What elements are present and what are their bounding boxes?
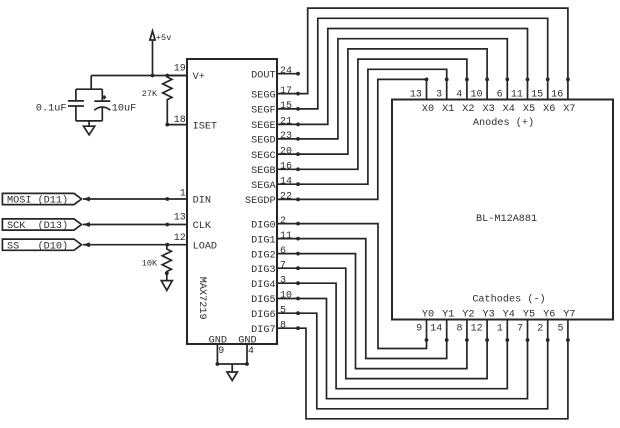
pin 14 Y1 (cathode bottom) [430,310,454,342]
wire DIG7 to Y7 [298,328,568,419]
svg-text:GND: GND [209,335,227,346]
svg-text:16: 16 [280,162,292,173]
ground below R2 [161,273,172,290]
resistor R2 10K [142,245,172,275]
svg-text:SCK (D13): SCK (D13) [7,220,68,232]
wire SEGF to X6 [298,18,548,109]
wire SEGDP to X0 [298,79,427,199]
pin 3 DIG4 (right) [251,275,300,291]
wire SEGA to X1 [298,69,447,184]
svg-text:14: 14 [280,176,292,187]
svg-text:SS (D10): SS (D10) [7,240,68,252]
wire SS to IC [83,242,187,247]
wire DIG5 to Y5 [298,299,528,399]
node SCK input flag [2,219,81,232]
wire DIG1 to Y1 [298,239,447,359]
wire SEGE to X5 [298,29,528,125]
svg-text:DIG6: DIG6 [251,310,275,321]
svg-text:CLK: CLK [193,221,212,232]
svg-text:SEGF: SEGF [251,106,275,117]
svg-text:3: 3 [436,90,442,101]
pin 8 Y2 (cathode bottom) [456,310,474,342]
pin 17 SEGG (right) [251,86,300,102]
pin 8 DIG7 (right) [251,320,300,336]
pin 12 Y3 (cathode bottom) [471,310,495,342]
svg-text:0.1uF: 0.1uF [36,103,67,114]
pin 2 DIG0 (right) [251,216,300,232]
svg-text:4: 4 [456,90,462,101]
svg-text:17: 17 [280,86,292,97]
svg-text:11: 11 [511,90,523,101]
pin 7 DIG3 (right) [251,260,300,276]
svg-text:15: 15 [280,101,292,112]
svg-text:2: 2 [280,216,286,227]
svg-text:Anodes (+): Anodes (+) [473,117,534,129]
pin 19 V+ (left) [167,64,205,84]
svg-text:X5: X5 [523,104,535,115]
power +5V symbol [150,31,171,76]
capacitor C2 10uF polarized [94,89,136,121]
pin 13 CLK (left) [174,213,212,233]
svg-text:X1: X1 [442,104,454,115]
pin 11 X5 (anode top) [511,78,535,115]
ground below IC [227,364,237,381]
svg-text:13: 13 [410,90,422,101]
pin 6 X4 (anode top) [497,78,515,115]
svg-text:DIG3: DIG3 [251,265,275,276]
pin 1 DIN (left) [180,188,211,206]
wire DIG0 to Y0 [298,224,427,349]
wire SCK to IC [83,222,187,227]
svg-text:7: 7 [280,260,286,271]
pin 12 LOAD (left) [174,233,217,253]
svg-text:Y7: Y7 [563,310,575,321]
svg-text:8: 8 [456,324,462,335]
pin 18 ISET (left) [167,115,217,132]
pin 9 GND (bottom) [209,335,227,366]
pin 15 X6 (anode top) [531,78,555,115]
svg-text:6: 6 [497,90,503,101]
svg-text:ISET: ISET [193,121,217,132]
svg-text:21: 21 [280,117,292,128]
svg-text:Y4: Y4 [503,310,515,321]
svg-text:14: 14 [430,324,442,335]
wire caps drop [90,76,92,90]
svg-text:LOAD: LOAD [193,241,217,252]
svg-text:MOSI (D11): MOSI (D11) [7,195,68,207]
svg-text:Y0: Y0 [422,310,434,321]
svg-text:GND: GND [238,335,256,346]
svg-text:Y2: Y2 [462,310,474,321]
svg-text:3: 3 [280,275,286,286]
pin 11 DIG1 (right) [251,231,300,247]
svg-text:X3: X3 [482,104,494,115]
wire SEGD to X4 [298,39,507,139]
svg-text:DIG5: DIG5 [251,295,275,306]
wire capacitor top bus [76,88,102,90]
pin 16 SEGB (right) [251,162,300,178]
svg-text:11: 11 [280,231,292,242]
pin 2 Y6 (cathode bottom) [537,310,555,342]
svg-text:27K: 27K [142,89,158,99]
resistor R1 27K [142,75,172,126]
ground below capacitors [84,121,95,135]
svg-text:SEGB: SEGB [251,166,275,177]
wire SEGC to X3 [298,49,487,154]
svg-text:13: 13 [174,213,186,224]
pin 5 Y7 (cathode bottom) [557,310,575,342]
svg-text:DIG4: DIG4 [251,280,275,291]
wire DIG6 to Y6 [298,313,548,409]
op IC U1 MAX7219 body [187,59,277,344]
pin 3 X1 (anode top) [436,78,454,115]
svg-text:12: 12 [174,233,186,244]
pin 10 DIG5 (right) [251,291,300,307]
pin 20 SEGC (right) [251,146,300,162]
svg-text:23: 23 [280,131,292,142]
svg-text:SEGDP: SEGDP [245,196,276,207]
svg-text:1: 1 [497,324,503,335]
svg-text:9: 9 [218,346,224,357]
pin 24 DOUT (right) [251,66,300,82]
svg-text:X7: X7 [563,104,575,115]
pin 21 SEGE (right) [251,117,300,133]
svg-text:5: 5 [557,324,563,335]
pin 16 X7 (anode top) [551,78,575,115]
display U2 BL-M12A881 body [392,100,613,320]
pin 5 DIG6 (right) [251,305,300,321]
svg-text:DIN: DIN [193,196,211,207]
svg-text:DOUT: DOUT [251,70,275,81]
pin 9 Y0 (cathode bottom) [416,310,434,342]
svg-text:DIG1: DIG1 [251,235,275,246]
svg-text:6: 6 [280,246,286,257]
svg-text:X2: X2 [462,104,474,115]
svg-text:20: 20 [280,146,292,157]
svg-text:18: 18 [174,115,186,126]
svg-text:Cathodes (-): Cathodes (-) [472,293,545,305]
wire DIG3 to Y3 [298,268,487,378]
svg-text:15: 15 [531,90,543,101]
svg-text:SEGC: SEGC [251,151,275,162]
wire GND pins join [217,363,247,365]
svg-text:12: 12 [471,324,483,335]
svg-text:7: 7 [517,324,523,335]
svg-text:SEGD: SEGD [251,136,275,147]
svg-text:Y3: Y3 [482,310,494,321]
svg-text:10uF: 10uF [112,103,136,114]
svg-text:10: 10 [280,291,292,302]
svg-text:DIG7: DIG7 [251,325,275,336]
wire capacitor bottom bus [76,120,102,122]
svg-text:2: 2 [537,324,543,335]
svg-text:5: 5 [280,305,286,316]
svg-text:8: 8 [280,320,286,331]
svg-text:X6: X6 [543,104,555,115]
svg-text:1: 1 [180,188,186,199]
wire V+ net: caps to IC pin 19 [91,74,187,78]
capacitor C1 0.1uF [36,89,84,121]
wire SEGB to X2 [298,59,467,169]
svg-text:Y5: Y5 [523,310,535,321]
svg-text:BL-M12A881: BL-M12A881 [476,214,537,225]
pin 23 SEGD (right) [251,131,300,147]
svg-text:DIG2: DIG2 [251,250,275,261]
wire DIG2 to Y2 [298,254,467,369]
svg-text:24: 24 [280,66,292,77]
pin 6 DIG2 (right) [251,246,300,261]
svg-text:+5v: +5v [156,33,171,43]
wire MOSI to IC [83,197,187,202]
svg-text:DIG0: DIG0 [251,220,275,231]
wire SEGG to X7 [298,8,568,94]
svg-text:V+: V+ [193,72,205,83]
node SS input flag [2,239,81,252]
pin 4 X2 (anode top) [456,78,474,115]
pin 4 GND (bottom) [238,335,256,366]
svg-text:SEGE: SEGE [251,121,275,132]
pin 10 X3 (anode top) [470,78,494,115]
svg-text:22: 22 [280,192,292,203]
svg-text:Y1: Y1 [442,310,454,321]
pin 22 SEGDP (right) [245,192,300,208]
node MOSI input flag [2,193,81,206]
svg-text:Y6: Y6 [543,310,555,321]
svg-text:4: 4 [248,346,254,357]
pin 15 SEGF (right) [251,101,300,117]
svg-text:10: 10 [470,90,482,101]
pin 7 Y5 (cathode bottom) [517,310,535,342]
svg-text:X4: X4 [503,104,515,115]
svg-text:X0: X0 [422,104,434,115]
pin 1 Y4 (cathode bottom) [497,310,515,342]
pin 13 X0 (anode top) [410,78,434,115]
svg-text:9: 9 [416,324,422,335]
svg-text:SEGG: SEGG [251,90,275,101]
pin 14 SEGA (right) [251,176,300,192]
svg-text:SEGA: SEGA [251,181,276,192]
svg-text:19: 19 [174,64,186,75]
svg-text:MAX7219: MAX7219 [196,277,207,320]
svg-text:16: 16 [551,90,563,101]
wire DIG4 to Y4 [298,283,507,389]
svg-text:10K: 10K [142,259,158,269]
